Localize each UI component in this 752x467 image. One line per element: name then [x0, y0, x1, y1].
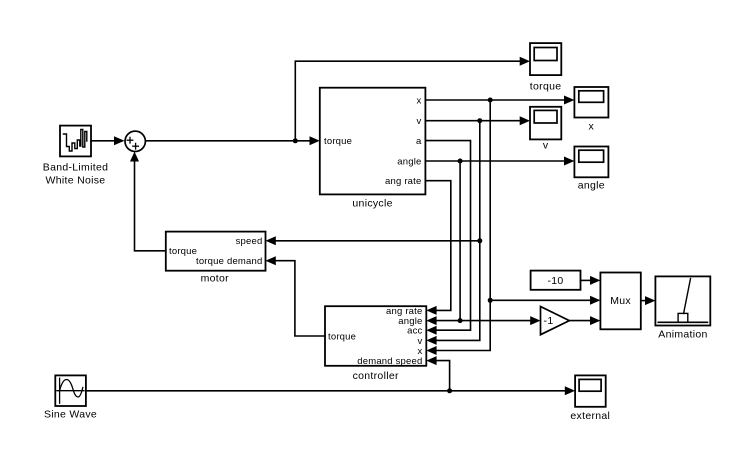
- svg-text:torque demand: torque demand: [196, 256, 263, 267]
- label x: [589, 121, 595, 133]
- subsystem unicycle: [320, 88, 426, 195]
- svg-text:-10: -10: [547, 275, 563, 287]
- svg-text:external: external: [570, 410, 610, 422]
- label torque: [530, 81, 562, 93]
- svg-text:v: v: [543, 140, 549, 152]
- svg-text:a: a: [416, 136, 422, 147]
- svg-text:Mux: Mux: [610, 295, 631, 307]
- svg-text:torque: torque: [530, 81, 562, 93]
- node junction on angle line: [458, 159, 463, 164]
- wire sine wave to external scope: [86, 386, 575, 395]
- svg-text:motor: motor: [201, 273, 230, 285]
- motor port labels: [169, 236, 263, 267]
- svg-text:Animation: Animation: [658, 329, 707, 341]
- node junction v to motor speed: [477, 238, 482, 243]
- wire unicycle v output to v scope: [425, 116, 530, 125]
- wire gain output to mux input 3: [569, 316, 600, 325]
- label controller: [353, 370, 399, 382]
- mux block Mux: [600, 273, 640, 330]
- scope v: [530, 107, 561, 140]
- wire angle signal down to controller angle input: [426, 161, 460, 325]
- gain -1: [541, 307, 570, 335]
- wire x junction to mux input 2: [490, 296, 600, 305]
- svg-text:ang rate: ang rate: [385, 176, 421, 187]
- node junction on torque line: [293, 138, 298, 143]
- subsystem motor: [166, 232, 266, 271]
- label external: [570, 410, 610, 422]
- svg-text:v: v: [417, 116, 422, 127]
- wire mux output to animation: [641, 296, 656, 305]
- wire motor torque feedback to sum bottom input: [130, 152, 166, 251]
- subsystem controller: [325, 306, 426, 366]
- label -1 gain value: [544, 315, 554, 327]
- scope angle: [574, 147, 608, 178]
- unicycle port labels: [324, 95, 422, 187]
- wire constant to mux input 1: [581, 276, 601, 285]
- svg-text:angle: angle: [397, 156, 421, 167]
- label angle: [578, 180, 605, 192]
- wire unicycle a output to controller acc input: [425, 141, 470, 335]
- label Animation: [658, 329, 707, 341]
- svg-text:torque: torque: [169, 246, 197, 257]
- scope external: [575, 375, 606, 406]
- svg-text:demand speed: demand speed: [357, 356, 422, 367]
- wire unicycle angle output to angle scope: [425, 157, 574, 166]
- wire angle junction to gain input: [460, 316, 540, 325]
- source block Sine Wave: [55, 375, 86, 406]
- label v: [543, 140, 549, 152]
- svg-text:Sine Wave: Sine Wave: [44, 409, 97, 421]
- svg-text:torque: torque: [324, 136, 352, 147]
- scope torque: [530, 43, 561, 75]
- label Sine Wave: [44, 409, 97, 421]
- label Band-Limited White Noise: [43, 162, 108, 187]
- svg-text:-1: -1: [544, 315, 554, 327]
- svg-text:x: x: [417, 95, 422, 106]
- sink block Animation: [655, 276, 710, 325]
- label motor: [201, 273, 230, 285]
- wire v signal down to controller v input: [426, 121, 480, 345]
- sum junction S1: [125, 131, 145, 151]
- node junction on v line: [477, 118, 482, 123]
- wire demand speed branch to controller: [426, 356, 449, 391]
- svg-text:x: x: [589, 121, 595, 133]
- svg-text:torque: torque: [328, 331, 356, 342]
- svg-text:speed: speed: [236, 236, 263, 247]
- label Mux: [610, 295, 631, 307]
- svg-text:Band-Limited: Band-Limited: [43, 162, 108, 174]
- node junction on demand speed line: [447, 388, 452, 393]
- node junction on x line: [488, 98, 493, 103]
- node junction x to mux: [488, 298, 493, 303]
- wire noise to sum: [91, 136, 125, 145]
- constant block -10: [531, 271, 581, 290]
- controller port labels: [328, 306, 423, 367]
- wire x signal down to mux and controller: [426, 100, 490, 355]
- wire controller torque output to motor torque demand: [266, 256, 326, 336]
- node junction angle to gain: [458, 318, 463, 323]
- wire sum to unicycle torque input: [145, 136, 319, 145]
- wire unicycle x output to x scope: [425, 96, 574, 105]
- wire unicycle ang rate output to controller ang rate input: [425, 181, 450, 315]
- source block Band-Limited White Noise: [60, 126, 91, 157]
- wire torque branch up to torque scope: [295, 57, 530, 141]
- svg-text:White Noise: White Noise: [46, 175, 106, 187]
- wire v junction to motor speed input: [266, 236, 480, 245]
- label unicycle: [352, 198, 392, 210]
- scope x: [574, 87, 608, 118]
- svg-text:controller: controller: [353, 370, 399, 382]
- svg-text:unicycle: unicycle: [352, 198, 392, 210]
- label -10 value: [547, 275, 563, 287]
- svg-text:angle: angle: [578, 180, 605, 192]
